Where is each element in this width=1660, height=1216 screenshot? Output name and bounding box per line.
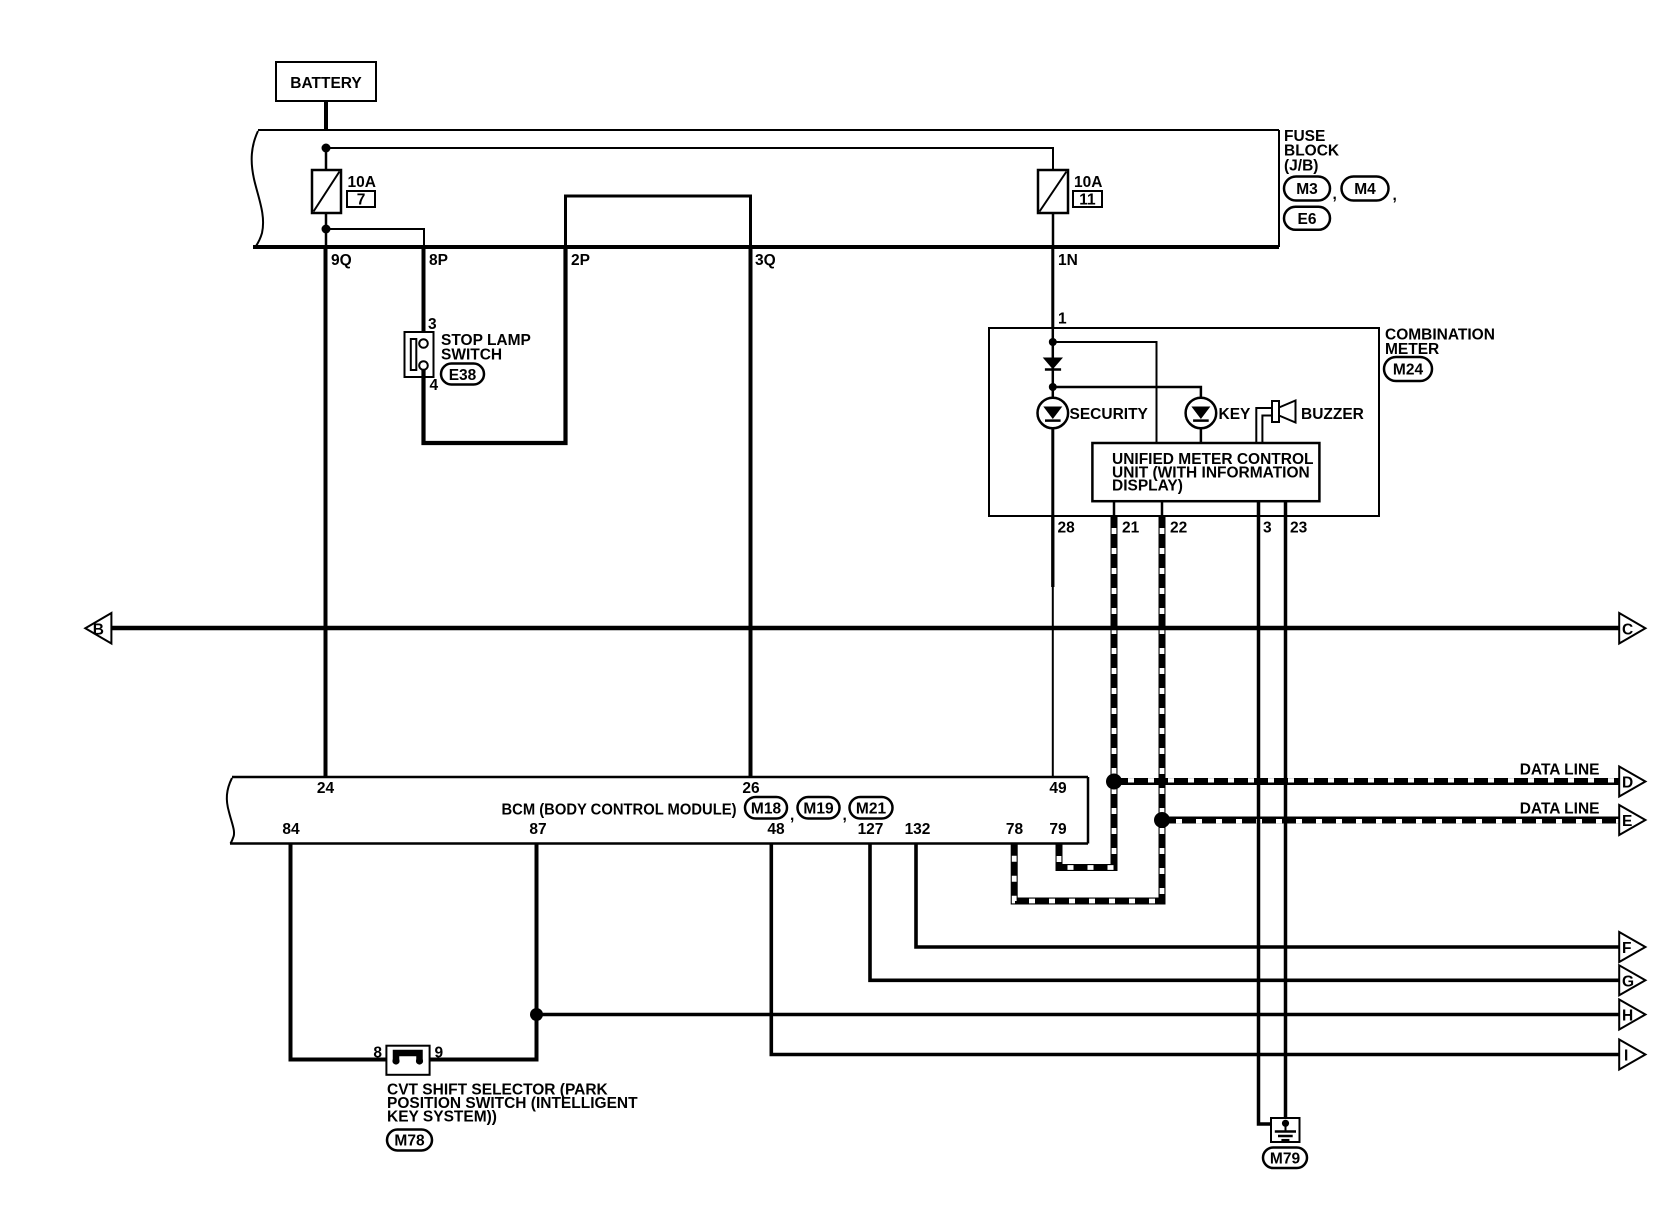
- svg-text:M4: M4: [1354, 181, 1376, 198]
- svg-text:DATA LINE: DATA LINE: [1520, 801, 1600, 818]
- wire: meter pin 1 to diode and security LED: [1052, 328, 1055, 398]
- junction dot: above diode: [1049, 338, 1057, 346]
- svg-text:H: H: [1622, 1008, 1633, 1025]
- connector oval M21: [850, 797, 893, 819]
- ground symbol box M79: [1271, 1118, 1300, 1142]
- svg-text:C: C: [1622, 622, 1633, 639]
- off-page arrow H: [1619, 1000, 1645, 1030]
- connector oval M3: [1284, 177, 1337, 204]
- stop lamp switch symbol E38: [405, 332, 434, 377]
- junction dot: data line D at BCM pin 49 column: [1106, 774, 1122, 790]
- junction dot: below fuse 7: [322, 225, 331, 234]
- svg-text:8P: 8P: [429, 252, 448, 269]
- svg-text:M18: M18: [751, 801, 782, 818]
- wire: buzzer terminal 2 to unified meter control unit: [1262, 416, 1272, 444]
- connector oval M78: [387, 1130, 432, 1151]
- unified meter control unit box: [1092, 443, 1319, 501]
- svg-text:,: ,: [843, 807, 847, 824]
- svg-text:,: ,: [790, 807, 794, 824]
- connector oval E38: [441, 364, 484, 385]
- svg-text:DISPLAY): DISPLAY): [1112, 478, 1183, 495]
- svg-text:22: 22: [1170, 520, 1187, 537]
- combination meter label: [1385, 327, 1495, 359]
- wire: fuse 7 to 9Q terminal: [325, 213, 328, 247]
- svg-text:SWITCH: SWITCH: [441, 347, 502, 364]
- svg-text:,: ,: [1333, 186, 1337, 203]
- svg-text:78: 78: [1006, 821, 1024, 838]
- wire: 1N down to combination meter pin 1: [1051, 247, 1054, 328]
- svg-text:1N: 1N: [1058, 252, 1078, 269]
- svg-text:49: 49: [1049, 780, 1067, 797]
- combination meter box M24: [989, 328, 1379, 516]
- svg-text:BATTERY: BATTERY: [290, 75, 362, 92]
- CVT shift selector text label: [387, 1082, 638, 1126]
- wire: BCM pin 48 to arrow I: [771, 844, 1619, 1055]
- wire: link from diode junction to unified meter control unit: [1053, 342, 1157, 443]
- off-page arrow F: [1619, 932, 1645, 962]
- svg-text:79: 79: [1049, 821, 1067, 838]
- svg-text:D: D: [1622, 775, 1633, 792]
- SECURITY indicator LED: [1038, 398, 1069, 429]
- svg-text:3Q: 3Q: [755, 252, 776, 269]
- battery B+ box: [276, 62, 376, 101]
- svg-text:BCM (BODY CONTROL MODULE): BCM (BODY CONTROL MODULE): [502, 802, 737, 819]
- svg-text:METER: METER: [1385, 341, 1439, 358]
- svg-text:(J/B): (J/B): [1284, 157, 1318, 174]
- svg-text:7: 7: [357, 192, 366, 209]
- wire: BCM pin 127 to arrow G: [870, 844, 1619, 981]
- buzzer symbol: [1272, 401, 1296, 423]
- wire: SECURITY LED down to meter pin 28: [1051, 428, 1054, 516]
- wire: internal link 2P to 3Q inside fuse block: [566, 196, 751, 246]
- wire: KEY LED to unified meter control unit: [1200, 428, 1203, 443]
- connector oval M4: [1342, 177, 1397, 205]
- wire: dashed from combination meter pin 22 down to data line E junction and BCM pin 78 loop: [1014, 516, 1162, 901]
- junction dot: battery feed at top bus: [322, 144, 331, 153]
- wire: dashed from combination meter pin 21 down to data line D junction and BCM pin 79 loop: [1059, 516, 1114, 868]
- svg-text:21: 21: [1122, 520, 1140, 537]
- svg-text:E38: E38: [449, 367, 477, 384]
- wire: stop lamp switch pin 4 back to 2P: [424, 249, 566, 443]
- svg-text:DATA LINE: DATA LINE: [1520, 762, 1600, 779]
- wire: fuse 11 to 1N terminal: [1052, 213, 1055, 247]
- svg-text:M21: M21: [856, 801, 887, 818]
- svg-text:28: 28: [1058, 520, 1076, 537]
- svg-text:E: E: [1622, 813, 1632, 830]
- svg-text:KEY: KEY: [1219, 406, 1252, 423]
- svg-text:8: 8: [373, 1045, 382, 1062]
- wire: BCM pin 87 down to H line junction: [535, 844, 539, 1015]
- wire: shielded DATA LINE E (dashed, from junction to arrow E): [1162, 820, 1619, 821]
- svg-text:M79: M79: [1270, 1151, 1301, 1168]
- svg-text:24: 24: [317, 780, 335, 797]
- wire: link from below diode to KEY LED: [1053, 387, 1201, 398]
- wire: long horizontal bus B to C: [111, 626, 1619, 631]
- svg-text:48: 48: [767, 821, 785, 838]
- wire: UMCU pin 23 down to ground M79: [1284, 501, 1288, 1121]
- svg-text:M24: M24: [1393, 362, 1424, 379]
- connector oval M79: [1263, 1148, 1307, 1169]
- svg-text:132: 132: [905, 821, 931, 838]
- wire: internal feed from junction to fuse 11: [326, 148, 1053, 170]
- fuse 7 10A symbol: [312, 170, 376, 213]
- connector oval M18: [745, 797, 794, 824]
- wire: H line to arrow H: [537, 1013, 1620, 1016]
- svg-text:9Q: 9Q: [331, 252, 352, 269]
- off-page arrow C: [1619, 613, 1645, 644]
- connector oval E6: [1284, 207, 1330, 230]
- wire: UMCU pin 3 down to ground M79: [1259, 501, 1272, 1124]
- wire: UMCU pin 21 stub: [1113, 501, 1116, 517]
- fuse block (J/B) box with torn left edge: [252, 130, 1279, 247]
- wire: meter pin 28 down to BCM pin 49 (upper thick part): [1051, 516, 1054, 587]
- svg-text:SECURITY: SECURITY: [1070, 406, 1149, 423]
- wire: 8P down to stop lamp switch pin 3: [422, 247, 426, 340]
- connector oval M19: [798, 797, 847, 824]
- svg-text:M3: M3: [1296, 181, 1318, 198]
- wire: BCM pin 84 to CVT shift selector pin 8: [291, 844, 387, 1060]
- KEY indicator LED: [1186, 398, 1217, 429]
- wire: internal branch junction to 8P terminal: [326, 229, 424, 246]
- wire: CVT switch pin 9 up to H line junction: [430, 1015, 537, 1060]
- svg-text:10A: 10A: [348, 174, 376, 191]
- svg-text:10A: 10A: [1074, 174, 1102, 191]
- wire: BCM pin 132 to arrow F: [916, 844, 1619, 948]
- svg-text:I: I: [1624, 1048, 1628, 1065]
- wire: meter pin 28 down to BCM pin 49 (lower thin part): [1052, 587, 1054, 776]
- off-page arrow B: [85, 613, 111, 644]
- off-page arrow D: [1619, 767, 1645, 797]
- off-page arrow G: [1619, 965, 1645, 995]
- wire: 9Q down to BCM pin 24: [324, 247, 328, 776]
- wire: battery junction down into fuse 7: [325, 148, 328, 170]
- svg-text:3: 3: [428, 316, 437, 333]
- svg-text:M19: M19: [803, 801, 834, 818]
- svg-text:B: B: [93, 622, 104, 639]
- svg-text:G: G: [1622, 973, 1634, 990]
- wire: battery to fuse block: [324, 101, 328, 131]
- diode symbol: [1044, 358, 1062, 370]
- svg-text:4: 4: [430, 377, 439, 394]
- svg-text:E6: E6: [1298, 211, 1317, 228]
- svg-text:127: 127: [858, 821, 884, 838]
- wire: buzzer terminal 1 to unified meter control unit: [1256, 408, 1272, 443]
- svg-text:KEY SYSTEM)): KEY SYSTEM)): [387, 1108, 497, 1125]
- svg-text:3: 3: [1263, 520, 1272, 537]
- wire: shielded DATA LINE D (dashed, from junction to arrow D): [1114, 780, 1619, 781]
- fuse 11 10A symbol: [1038, 170, 1102, 213]
- connector oval M24: [1384, 357, 1432, 381]
- off-page arrow I: [1619, 1040, 1645, 1070]
- svg-text:2P: 2P: [571, 252, 590, 269]
- stop lamp switch text label: [441, 332, 531, 364]
- svg-text:23: 23: [1290, 520, 1308, 537]
- BCM (body control module) box with torn left edge: [227, 777, 1088, 844]
- wire: UMCU pin 22 stub: [1161, 501, 1164, 517]
- svg-text:87: 87: [529, 821, 546, 838]
- svg-text:1: 1: [1058, 311, 1067, 328]
- svg-text:BUZZER: BUZZER: [1301, 406, 1364, 423]
- junction dot: data line E: [1154, 812, 1170, 828]
- svg-text:26: 26: [742, 780, 760, 797]
- svg-text:84: 84: [282, 821, 300, 838]
- wire: 3Q down to BCM pin 26: [749, 247, 753, 776]
- junction dot: H line at pin 87 column: [530, 1008, 543, 1021]
- off-page arrow E: [1619, 805, 1645, 835]
- svg-text:,: ,: [1393, 187, 1397, 204]
- junction dot: below diode: [1049, 383, 1057, 391]
- fuse block label FUSE BLOCK (J/B): [1284, 128, 1340, 174]
- svg-text:F: F: [1622, 940, 1631, 957]
- CVT shift selector park position switch symbol: [386, 1046, 429, 1075]
- svg-text:M78: M78: [394, 1133, 425, 1150]
- svg-text:11: 11: [1079, 192, 1096, 209]
